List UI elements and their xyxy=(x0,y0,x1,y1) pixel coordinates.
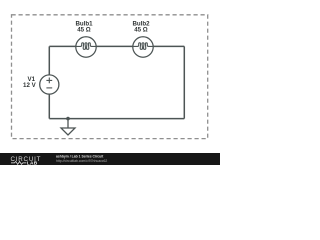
CircuitLab logo xyxy=(11,156,42,167)
ground xyxy=(61,119,75,135)
svg-text:12 V: 12 V xyxy=(23,82,37,89)
wire left vertical (V1 to bottom corner) xyxy=(48,94,50,119)
svg-text:45 Ω: 45 Ω xyxy=(134,27,148,34)
lamp Bulb2 xyxy=(133,37,153,57)
wire left vertical (top corner to V1) xyxy=(48,46,50,75)
wire top (node from V1+ through bulbs) xyxy=(49,45,184,47)
svg-text:45 Ω: 45 Ω xyxy=(77,27,91,34)
voltage source V1 xyxy=(40,75,59,94)
lamp Bulb1 xyxy=(76,37,96,57)
svg-text:ashbym / Lab 1 Series Circuit: ashbym / Lab 1 Series Circuit xyxy=(56,155,104,159)
svg-text:http://circuitlab.com/c/97hhua: http://circuitlab.com/c/97hhuacc62 xyxy=(56,159,107,163)
footer bar xyxy=(0,153,220,165)
dashed selection border xyxy=(12,15,208,139)
junction node at ground tap xyxy=(66,117,70,121)
svg-text:LAB: LAB xyxy=(27,160,38,165)
wire right vertical xyxy=(183,46,185,118)
wire bottom (ground net) xyxy=(49,118,184,120)
